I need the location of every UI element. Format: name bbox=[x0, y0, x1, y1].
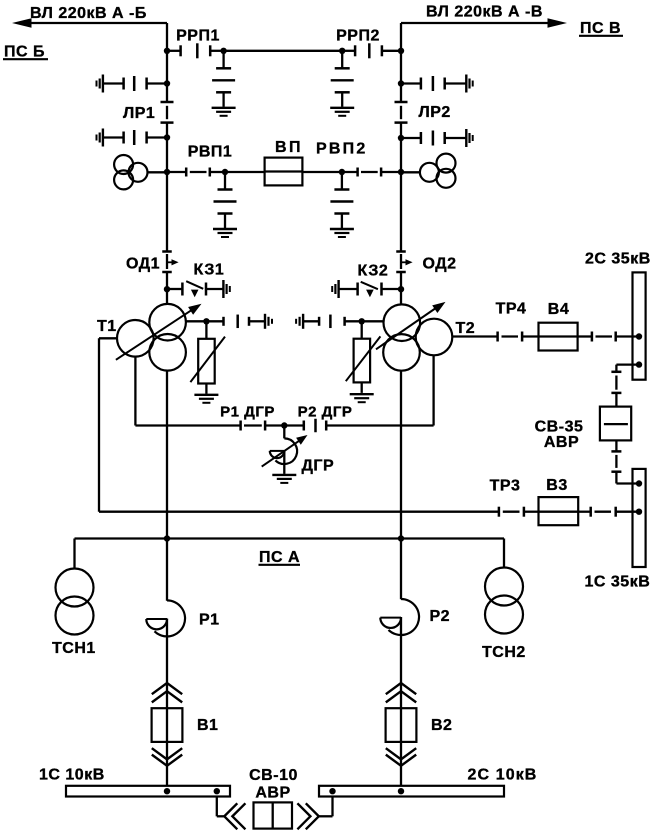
disconnector RRP1 bbox=[167, 50, 181, 52]
svg-text:ТСН1: ТСН1 bbox=[52, 640, 96, 657]
svg-text:В2: В2 bbox=[431, 717, 452, 734]
opening disconnector OD2 bbox=[396, 250, 406, 253]
wire left 220kV vertical (top to LR1) bbox=[166, 23, 168, 102]
svg-text:ОД1: ОД1 bbox=[126, 256, 160, 273]
node TSN tie at left vertical bbox=[164, 535, 170, 541]
svg-text:АВР: АВР bbox=[255, 784, 290, 801]
wire right vertical (R2 to 2S 10kV bus) bbox=[400, 617, 402, 786]
wire T2 to TR4 bbox=[452, 335, 497, 337]
svg-text:В1: В1 bbox=[197, 717, 218, 734]
svg-text:СВ-35: СВ-35 bbox=[535, 419, 584, 436]
wire down to arrester 2 bbox=[361, 321, 363, 338]
node on 2S 35kV bus (SV-35) bbox=[636, 361, 642, 367]
wire 1S bus down to SV-10 bbox=[216, 797, 218, 817]
wire SV-35 lower link to 1S bus bbox=[616, 482, 639, 484]
wire left 220kV vertical (LR1 to OD1) bbox=[166, 123, 168, 251]
earthing switch chain below RRP2 bbox=[341, 51, 343, 68]
disconnecting link R1 DGR (closed) bbox=[239, 421, 242, 431]
breaker SV-35 (bus tie with AVR) bbox=[600, 407, 631, 441]
svg-text:ВЛ 220кВ А -В: ВЛ 220кВ А -В bbox=[426, 4, 543, 21]
svg-text:Т2: Т2 bbox=[456, 320, 476, 337]
wire right 220kV vertical (LR2 to OD2) bbox=[400, 123, 402, 251]
busbar 1S 10kV bbox=[66, 786, 230, 797]
svg-text:РВП2: РВП2 bbox=[316, 141, 367, 158]
node V2 on 2S 10kV bus bbox=[398, 788, 404, 794]
svg-text:КЗ2: КЗ2 bbox=[358, 263, 389, 280]
disconnector RRP2 bbox=[342, 50, 355, 52]
earthing switch right lower (below LR2) bbox=[398, 135, 404, 141]
busbar 1S 35kV bbox=[633, 469, 646, 567]
transformer TSN2 bbox=[485, 568, 523, 606]
node V1 on 1S 10kV bus bbox=[164, 788, 170, 794]
drawout link V3 to bus bbox=[578, 511, 591, 513]
node SV-10 on 2S 10kV bus bbox=[329, 788, 335, 794]
transformer TSN1 bbox=[56, 569, 94, 607]
voltage transformer left (3 windings) bbox=[114, 155, 133, 174]
surge arrester at T2 bbox=[354, 339, 371, 383]
wire neutral node to T2 bbox=[362, 320, 384, 322]
svg-text:ВЛ 220кВ А -Б: ВЛ 220кВ А -Б bbox=[30, 5, 147, 22]
svg-text:Р2: Р2 bbox=[430, 608, 451, 625]
neutral earthing disconnector of T2 bbox=[302, 314, 304, 329]
earthing switch chain below RRP1 bbox=[222, 51, 224, 68]
wire left vertical (T1 to R1) bbox=[166, 371, 168, 601]
node TSN tie at right vertical bbox=[398, 535, 404, 541]
breaker SV-10 (bus tie with AVR) bbox=[254, 802, 293, 828]
earthing switch chain below RVP1 bbox=[224, 172, 226, 189]
svg-text:2С 35кВ: 2С 35кВ bbox=[585, 251, 651, 268]
svg-text:ПС В: ПС В bbox=[580, 20, 621, 37]
svg-text:Р2 ДГР: Р2 ДГР bbox=[298, 404, 353, 421]
svg-text:ВП: ВП bbox=[275, 139, 303, 156]
surge arrester at T1 bbox=[198, 339, 215, 384]
node at KZ2 tap bbox=[398, 286, 404, 292]
disconnector LR1 bbox=[161, 101, 174, 104]
svg-text:Р1: Р1 bbox=[199, 612, 220, 629]
short-circuiter KZ1 bbox=[167, 288, 182, 290]
short-circuiter KZ2 bbox=[382, 288, 402, 290]
arrowhead right (to PS V) bbox=[548, 18, 568, 28]
svg-text:В4: В4 bbox=[548, 301, 569, 318]
node at KZ1 tap bbox=[164, 286, 170, 292]
transformer T2 (3-winding, on-load tap changer) bbox=[384, 304, 421, 341]
wire 2S bus to SV-35 upper link bbox=[616, 363, 639, 365]
node RRP2 left bbox=[339, 48, 345, 54]
busbar 2S 35kV bbox=[633, 272, 646, 379]
breaker VP (bypass breaker) bbox=[265, 158, 303, 186]
svg-text:1С 35кВ: 1С 35кВ bbox=[585, 574, 651, 591]
wire 35kV feeder horizontal to TR3 bbox=[99, 511, 499, 513]
node neutral T1 bbox=[203, 318, 209, 324]
node on left vertical at RVP1 bbox=[164, 169, 170, 175]
wire VP to RVP2 bbox=[302, 171, 342, 173]
withdrawable contacts SV-10 right bbox=[297, 803, 310, 829]
withdrawable breaker V1 bbox=[152, 683, 182, 694]
node on right vertical at RVP2 bbox=[398, 169, 404, 175]
earthing switch left upper (above LR1) bbox=[164, 80, 170, 86]
earthing switch chain below RVP2 bbox=[341, 172, 343, 189]
switch R1 bbox=[155, 600, 186, 636]
node on 1S 35kV bus (V3) bbox=[636, 509, 642, 515]
disconnecting link RVP1 bbox=[167, 171, 186, 173]
svg-text:ПС А: ПС А bbox=[259, 549, 300, 566]
busbar 2S 10kV bbox=[319, 786, 504, 797]
disconnector LR2 bbox=[395, 101, 408, 104]
svg-text:ТР4: ТР4 bbox=[496, 301, 527, 318]
svg-text:РРП1: РРП1 bbox=[176, 28, 220, 45]
wire SV-10 up to 2S bus bbox=[319, 815, 333, 817]
node neutral T2 bbox=[359, 318, 365, 324]
wire TSN horizontal tie bbox=[75, 537, 505, 539]
svg-text:Т1: Т1 bbox=[97, 318, 117, 335]
svg-text:2С 10кВ: 2С 10кВ bbox=[468, 767, 538, 784]
svg-text:ТР3: ТР3 bbox=[490, 478, 521, 495]
breaker V4 bbox=[539, 323, 578, 351]
withdrawable contacts SV-10 left bbox=[224, 803, 237, 829]
node on left vertical at RRP1 bbox=[164, 48, 170, 54]
wire DGR tie left part bbox=[135, 424, 240, 426]
wire down to TSN2 bbox=[503, 539, 505, 568]
svg-text:ЛР1: ЛР1 bbox=[123, 105, 155, 122]
svg-text:РВП1: РВП1 bbox=[188, 144, 233, 161]
wire 35kV feeder down-leg bbox=[98, 338, 100, 511]
node on right vertical at RRP2 bbox=[398, 48, 404, 54]
wire line to PS V (right overhead line) bbox=[401, 22, 551, 24]
svg-text:СВ-10: СВ-10 bbox=[249, 767, 298, 784]
svg-text:АВР: АВР bbox=[544, 434, 579, 451]
node SV-10 on 1S 10kV bus bbox=[214, 788, 220, 794]
svg-text:ПС Б: ПС Б bbox=[4, 44, 45, 61]
node on 2S 35kV bus (V4) bbox=[636, 333, 642, 339]
node RVP2 left bbox=[339, 169, 345, 175]
withdrawable breaker V2 bbox=[386, 683, 416, 694]
svg-text:Р1 ДГР: Р1 ДГР bbox=[220, 404, 275, 421]
wire T1 to neutral node bbox=[186, 320, 206, 322]
opening disconnector OD1 bbox=[162, 250, 172, 253]
wire left 220kV vertical (OD1 to T1) bbox=[166, 271, 168, 304]
wire TR3 to V3 bbox=[524, 511, 539, 513]
svg-text:РРП2: РРП2 bbox=[336, 28, 380, 45]
wire right 220kV vertical (top to LR2) bbox=[400, 23, 402, 102]
svg-text:1С 10кВ: 1С 10кВ bbox=[39, 767, 105, 784]
earthing switch left lower (below LR1) bbox=[164, 134, 170, 140]
earthing switch right upper (above LR2) bbox=[398, 80, 404, 86]
wire T1 35kV winding stub bbox=[99, 337, 117, 339]
drawout link V4 to bus bbox=[591, 332, 594, 342]
node on 1S 35kV bus (SV-35) bbox=[636, 480, 642, 486]
disconnecting link RVP2 bbox=[342, 171, 358, 173]
drawout link SV-35 upper bbox=[611, 371, 621, 374]
wire RVP1 to VP bbox=[225, 171, 265, 173]
svg-text:КЗ1: КЗ1 bbox=[194, 262, 225, 279]
wire left vertical (R1 to 1S 10kV bus) bbox=[166, 619, 168, 786]
wire right 220kV vertical (OD2 to T2) bbox=[400, 271, 402, 304]
neutral earthing disconnector of T1 bbox=[206, 320, 223, 322]
wire down to arrester 1 bbox=[205, 321, 207, 339]
drawout link TR3 bbox=[498, 507, 501, 517]
svg-text:В3: В3 bbox=[546, 477, 567, 494]
svg-text:ЛР2: ЛР2 bbox=[419, 104, 451, 121]
transformer T1 (3-winding, on-load tap changer) bbox=[149, 304, 186, 341]
wire T2 second winding down-leg bbox=[432, 355, 434, 425]
drawout link TR4 bbox=[496, 332, 499, 342]
arrowhead left (to PS B) bbox=[12, 18, 32, 28]
disconnector R2 DGR (open) bbox=[284, 424, 304, 426]
drawout link SV-35 lower bbox=[615, 440, 617, 451]
switch R2 bbox=[389, 599, 420, 635]
node DGR tap bbox=[281, 422, 287, 428]
node RRP1 right bbox=[220, 48, 226, 54]
svg-text:ТСН2: ТСН2 bbox=[482, 644, 526, 661]
node RVP1 right bbox=[222, 169, 228, 175]
wire right vertical (T2 to R2) bbox=[400, 371, 402, 600]
breaker V3 bbox=[539, 497, 579, 525]
wire down to TSN1 bbox=[73, 539, 75, 569]
svg-text:ДГР: ДГР bbox=[302, 458, 335, 475]
wire bypass link RRP1-RRP2 bbox=[224, 50, 343, 52]
svg-text:ОД2: ОД2 bbox=[423, 256, 457, 273]
wire T1 second winding down-leg bbox=[134, 357, 136, 426]
wire line to PS B (left overhead line) bbox=[28, 22, 167, 24]
arc-suppression reactor DGR bbox=[283, 426, 285, 439]
voltage transformer right (3 windings) bbox=[401, 171, 420, 173]
wire TR4 to V4 bbox=[522, 335, 538, 337]
